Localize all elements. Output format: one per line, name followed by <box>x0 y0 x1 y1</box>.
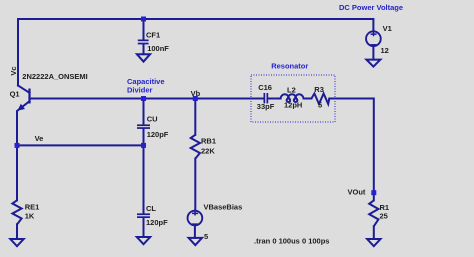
svg-text:Resonator: Resonator <box>271 61 308 70</box>
svg-text:120pF: 120pF <box>146 218 168 227</box>
svg-text:Divider: Divider <box>127 85 153 94</box>
svg-text:CU: CU <box>147 115 158 124</box>
svg-text:25: 25 <box>380 212 388 221</box>
svg-text:12: 12 <box>381 46 389 55</box>
svg-text:100nF: 100nF <box>147 44 169 53</box>
svg-text:120pF: 120pF <box>147 130 169 139</box>
svg-text:2N2222A_ONSEMI: 2N2222A_ONSEMI <box>22 72 87 81</box>
svg-text:Ve: Ve <box>35 134 44 143</box>
svg-text:VOut: VOut <box>348 187 366 196</box>
svg-text:RB1: RB1 <box>201 136 216 145</box>
svg-text:22K: 22K <box>201 146 215 155</box>
svg-text:VBaseBias: VBaseBias <box>204 202 243 211</box>
svg-text:DC Power Voltage: DC Power Voltage <box>339 3 403 12</box>
svg-text:33pF: 33pF <box>257 102 275 111</box>
svg-text:12pH: 12pH <box>284 101 302 110</box>
svg-text:L2: L2 <box>287 86 296 95</box>
svg-text:C16: C16 <box>258 83 272 92</box>
svg-text:Q1: Q1 <box>10 89 20 98</box>
svg-text:R3: R3 <box>314 85 324 94</box>
svg-text:V1: V1 <box>383 24 392 33</box>
svg-text:5: 5 <box>318 101 322 110</box>
svg-text:5: 5 <box>204 232 208 241</box>
svg-text:.tran 0 100us 0 100ps: .tran 0 100us 0 100ps <box>254 237 329 246</box>
svg-text:Vc: Vc <box>9 66 18 75</box>
svg-text:1K: 1K <box>25 211 35 220</box>
svg-text:CL: CL <box>146 204 156 213</box>
svg-text:CF1: CF1 <box>146 30 160 39</box>
svg-text:RE1: RE1 <box>25 203 40 212</box>
svg-text:Vb: Vb <box>191 89 201 98</box>
